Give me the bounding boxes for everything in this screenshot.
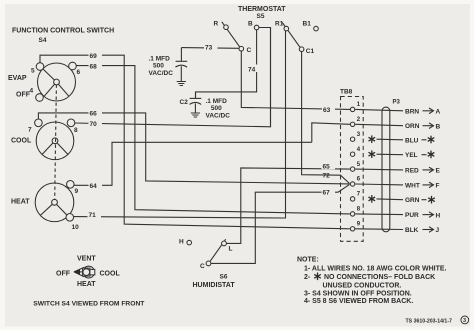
svg-text:GRN: GRN xyxy=(405,197,420,204)
svg-text:VAC/DC: VAC/DC xyxy=(206,112,231,119)
row 1 xyxy=(350,107,354,111)
svg-text:OFF: OFF xyxy=(16,92,31,99)
svg-text:H: H xyxy=(436,212,441,219)
wire 68 : EVAP-6 to TB8-8 xyxy=(76,66,350,214)
svg-text:HEAT: HEAT xyxy=(77,281,96,288)
terminal 8 xyxy=(67,119,75,127)
wire B right branch xyxy=(259,28,271,127)
terminal 4 xyxy=(36,94,44,102)
svg-text:B: B xyxy=(436,123,441,130)
svg-text:E: E xyxy=(436,168,441,175)
svg-text:HUMIDISTAT: HUMIDISTAT xyxy=(193,282,236,289)
wire 67 : C to TB8-6 xyxy=(211,185,350,264)
no-connection asterisk row 4 xyxy=(369,150,376,158)
svg-text:.1 MFD: .1 MFD xyxy=(206,98,228,105)
wire 63 : C to TB8-1 xyxy=(241,51,350,109)
wire 69 : EVAP-5 to TB8-9 xyxy=(40,55,350,229)
row 9 xyxy=(350,227,354,231)
svg-text:WHT: WHT xyxy=(405,182,420,189)
terminal 7 xyxy=(35,119,43,127)
svg-text:ORN: ORN xyxy=(405,123,420,130)
row 8 xyxy=(350,212,354,216)
row 5 xyxy=(350,167,354,171)
rotary switch S4 section COOL xyxy=(36,122,74,160)
svg-text:SWITCH S4 VIEWED FROM FRONT: SWITCH S4 VIEWED FROM FRONT xyxy=(33,301,145,308)
rotary switch S4 section EVAP xyxy=(38,63,76,101)
row 6 xyxy=(350,182,354,186)
terminal R xyxy=(224,25,229,30)
terminal B1 xyxy=(314,26,319,31)
terminal 5 xyxy=(36,63,44,71)
svg-text:R1: R1 xyxy=(275,21,284,28)
svg-text:2-: 2- xyxy=(304,274,311,281)
hub EVAP xyxy=(54,79,60,85)
rotary switch S4 section HEAT xyxy=(35,183,74,222)
svg-text:71: 71 xyxy=(89,212,97,219)
svg-text:B: B xyxy=(248,21,253,28)
svg-text:NOTE:: NOTE: xyxy=(297,257,319,264)
row 2 xyxy=(350,122,354,126)
wiper spokes EVAP xyxy=(43,69,57,83)
svg-text:C1: C1 xyxy=(306,48,315,55)
svg-text:500: 500 xyxy=(153,63,164,70)
knob inner square xyxy=(83,268,90,276)
wire 70 : COOL-8 to thermostat B xyxy=(75,28,271,127)
svg-text:S5: S5 xyxy=(257,13,265,20)
svg-text:S6: S6 xyxy=(220,274,228,281)
terminal L xyxy=(222,241,227,246)
svg-text:FUNCTION CONTROL SWITCH: FUNCTION CONTROL SWITCH xyxy=(12,28,114,35)
svg-text:P3: P3 xyxy=(393,100,401,106)
svg-text:EVAP: EVAP xyxy=(8,75,27,82)
no-connection asterisk row 3 xyxy=(369,135,376,143)
knob pointer cone xyxy=(74,267,84,272)
svg-text:67: 67 xyxy=(323,190,331,197)
svg-text:69: 69 xyxy=(90,53,98,60)
svg-text:F: F xyxy=(436,183,440,190)
svg-text:.1 MFD: .1 MFD xyxy=(149,56,171,63)
terminal 6 xyxy=(69,62,77,70)
wiper spokes HEAT xyxy=(40,202,54,215)
svg-text:65: 65 xyxy=(323,164,331,171)
svg-text:3: 3 xyxy=(463,318,466,324)
terminal C xyxy=(239,46,244,51)
svg-text:COOL: COOL xyxy=(100,270,121,277)
wire C1 down to 64 line xyxy=(302,52,350,184)
svg-text:6: 6 xyxy=(77,69,81,76)
svg-text:C2: C2 xyxy=(180,99,189,106)
svg-text:NO CONNECTIONS– FOLD BACK: NO CONNECTIONS– FOLD BACK xyxy=(324,274,435,281)
svg-text:HEAT: HEAT xyxy=(11,199,30,206)
arm C-L xyxy=(210,239,226,262)
wire 73 : C to capacitor xyxy=(181,47,239,50)
svg-text:B1: B1 xyxy=(303,20,312,27)
svg-text:TS 3610-203-14/1-7: TS 3610-203-14/1-7 xyxy=(406,319,453,325)
svg-text:5: 5 xyxy=(31,68,35,75)
svg-text:PUR: PUR xyxy=(405,212,419,219)
P3 connector capsule xyxy=(382,107,390,232)
terminal 10 xyxy=(66,214,74,222)
terminal 9 xyxy=(67,181,75,189)
svg-text:BLU: BLU xyxy=(405,137,419,144)
no-connection asterisk row 7 xyxy=(369,195,376,203)
svg-text:72: 72 xyxy=(323,173,331,180)
svg-text:BRN: BRN xyxy=(405,108,419,115)
svg-text:S4: S4 xyxy=(39,37,47,44)
svg-text:500: 500 xyxy=(211,105,222,112)
wire 65 : L to TB8-5 xyxy=(226,168,349,244)
wiper spokes COOL xyxy=(42,141,55,155)
hub HEAT xyxy=(52,199,58,205)
wire to TB8-2 branch xyxy=(312,123,350,143)
thermostat switch R1-C1 arm xyxy=(282,22,300,47)
svg-text:8: 8 xyxy=(74,127,78,134)
svg-text:RED: RED xyxy=(405,167,419,174)
hub COOL xyxy=(52,138,58,144)
svg-text:9: 9 xyxy=(75,188,79,195)
svg-text:R: R xyxy=(214,21,219,28)
knob inner circle xyxy=(83,269,90,276)
terminal C1 xyxy=(299,47,304,52)
wire 74 : B to C2 xyxy=(196,30,257,98)
row 7 xyxy=(350,197,354,201)
thermostat switch R-C arm xyxy=(222,22,240,47)
row 4 xyxy=(350,152,354,156)
wire 64 : HEAT-9 to thermostat C1 xyxy=(74,142,312,185)
svg-text:A: A xyxy=(436,109,441,116)
svg-text:73: 73 xyxy=(205,45,213,52)
knob body circle xyxy=(83,266,95,278)
svg-text:OFF: OFF xyxy=(56,270,71,277)
terminal C xyxy=(206,261,211,266)
svg-text:UNUSED CONDUCTOR.: UNUSED CONDUCTOR. xyxy=(323,282,402,289)
svg-text:C: C xyxy=(247,47,252,54)
asterisk GRN xyxy=(428,196,435,204)
ground xyxy=(177,82,186,86)
knob right tab xyxy=(90,269,95,275)
svg-text:74: 74 xyxy=(248,66,256,73)
asterisk BLU xyxy=(428,136,435,144)
svg-text:66: 66 xyxy=(90,111,98,118)
svg-text:10: 10 xyxy=(72,224,80,231)
ground C2 xyxy=(191,113,200,117)
svg-text:7: 7 xyxy=(28,127,32,134)
svg-text:70: 70 xyxy=(90,121,98,128)
svg-text:THERMOSTAT: THERMOSTAT xyxy=(238,6,286,13)
svg-text:C: C xyxy=(200,263,205,270)
svg-text:4- S5 8 S6 VIEWED FROM BACK.: 4- S5 8 S6 VIEWED FROM BACK. xyxy=(304,298,413,305)
capacitor 1 (.1 MFD) xyxy=(180,48,182,61)
svg-text:64: 64 xyxy=(90,183,98,190)
svg-text:4: 4 xyxy=(30,88,34,95)
svg-text:63: 63 xyxy=(323,107,331,114)
svg-text:VENT: VENT xyxy=(77,256,96,263)
svg-text:H: H xyxy=(179,238,184,245)
svg-text:3- S4 SHOWN IN OFF POSITION.: 3- S4 SHOWN IN OFF POSITION. xyxy=(304,291,412,298)
svg-text:COOL: COOL xyxy=(11,138,32,145)
terminal R1 xyxy=(284,26,289,31)
svg-text:L: L xyxy=(229,246,233,253)
svg-text:J: J xyxy=(436,227,440,234)
asterisk YEL xyxy=(428,151,435,159)
row 3 xyxy=(350,137,354,141)
wire 71 : HEAT-10 to thermostat R1 xyxy=(74,31,286,218)
svg-text:68: 68 xyxy=(90,63,98,70)
wire 66/72 : COOL-7 to TB8-6 xyxy=(38,113,349,184)
svg-text:BLK: BLK xyxy=(405,227,419,234)
svg-text:VAC/DC: VAC/DC xyxy=(149,70,174,77)
terminal B xyxy=(254,25,259,30)
mechanical link dashed line xyxy=(55,85,57,201)
svg-text:TB8: TB8 xyxy=(340,89,353,96)
knob pointer tip xyxy=(74,269,80,275)
svg-text:1- ALL WIRES NO. 18 AWG COLOR: 1- ALL WIRES NO. 18 AWG COLOR WHITE. xyxy=(304,266,447,273)
svg-text:YEL: YEL xyxy=(405,152,418,159)
asterisk note 2 xyxy=(314,273,321,281)
